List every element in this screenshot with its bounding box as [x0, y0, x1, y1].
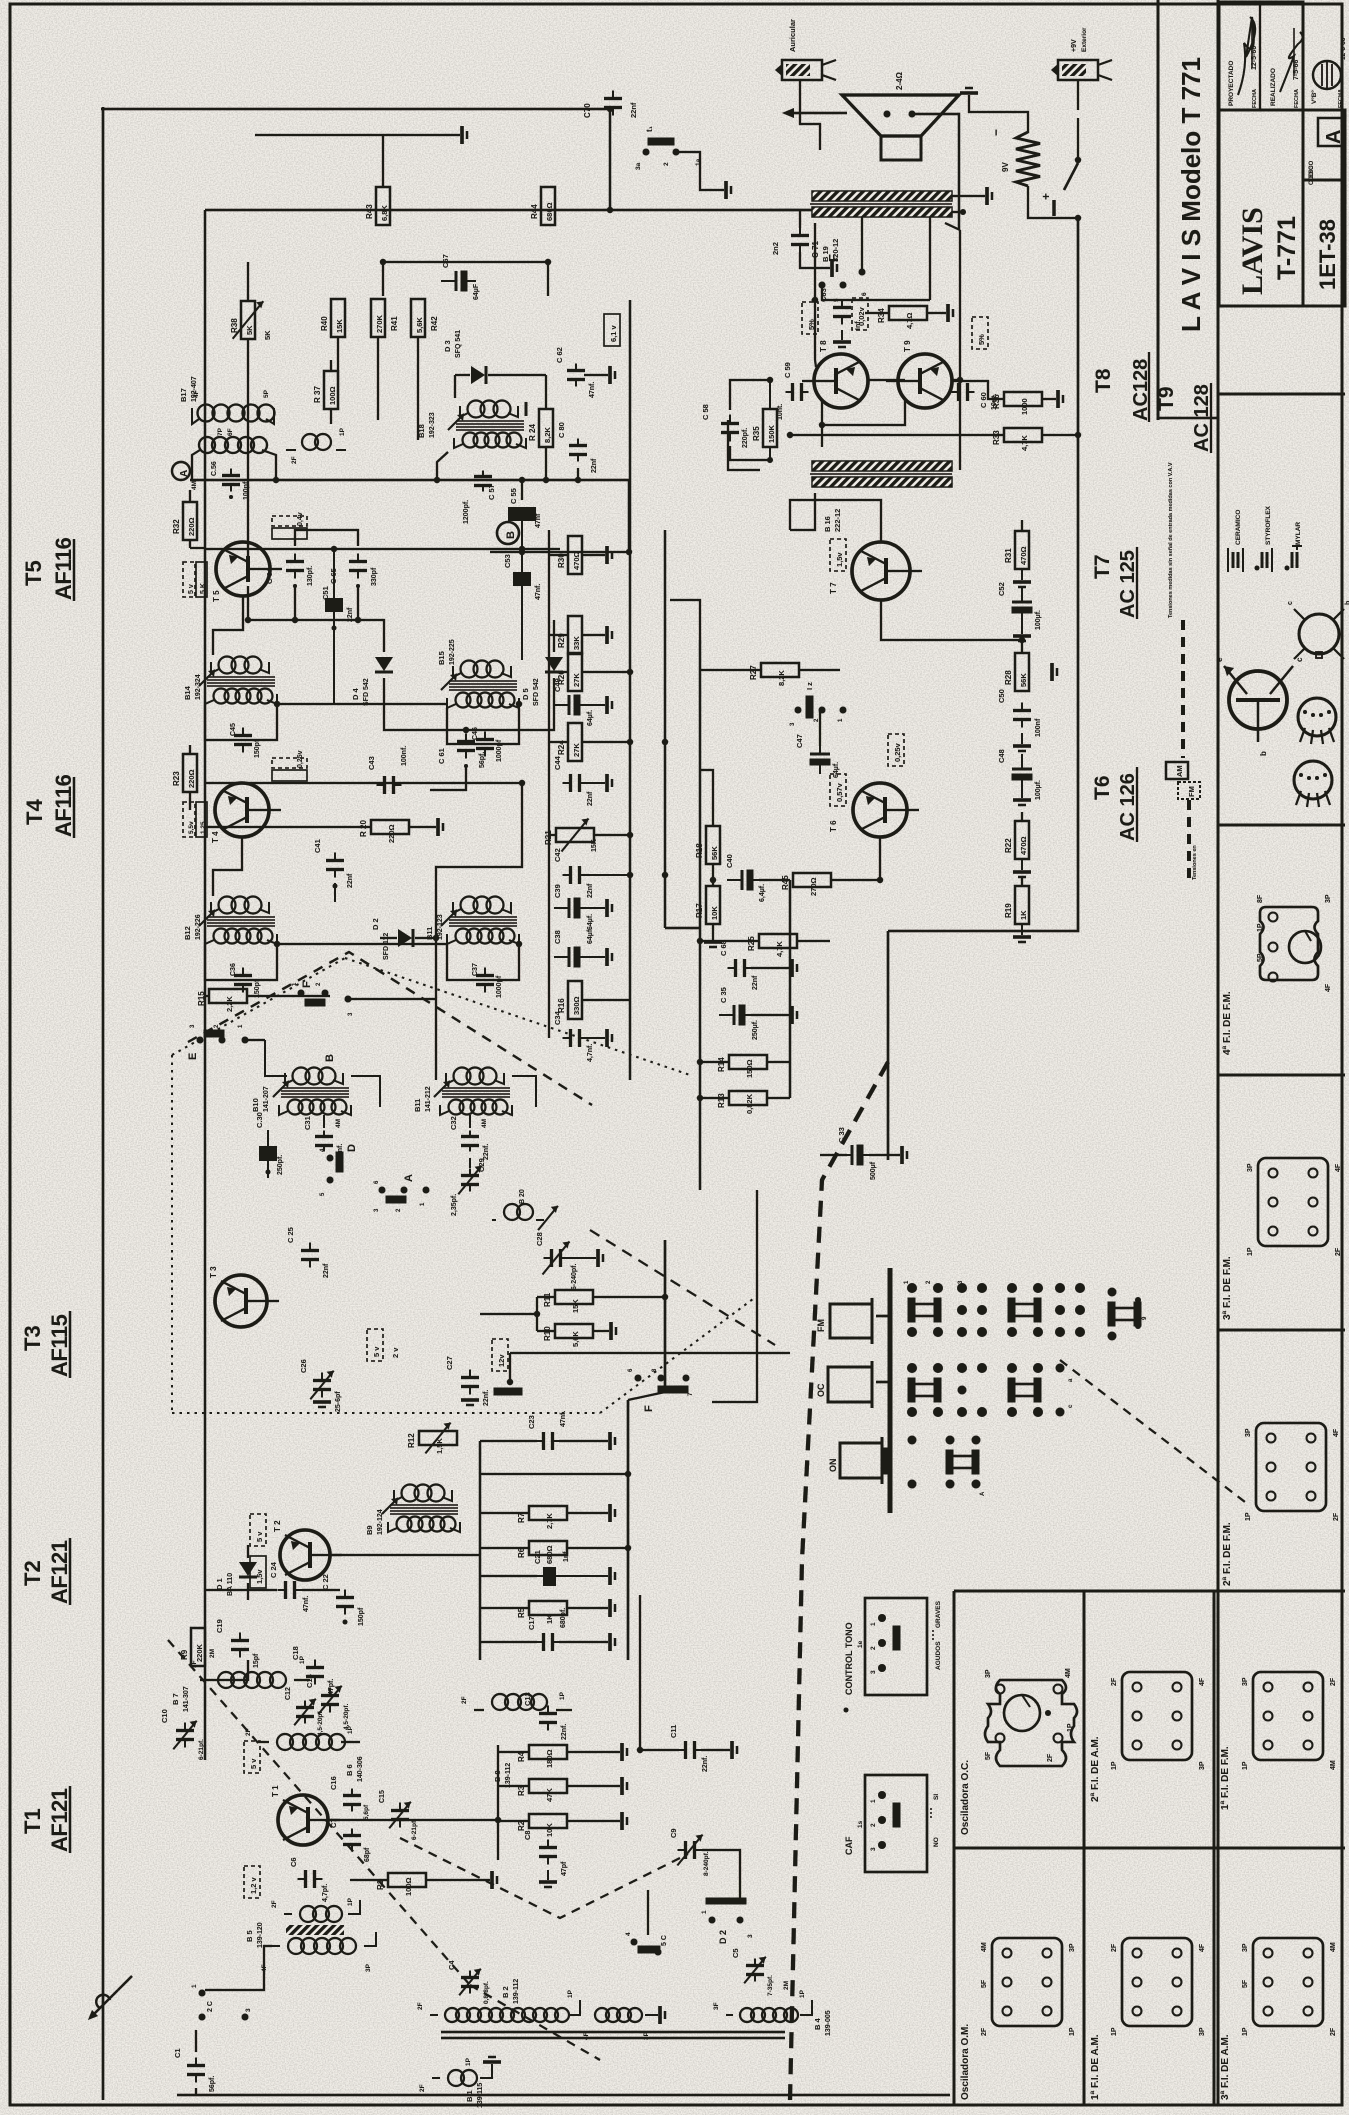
- svg-text:141-207: 141-207: [263, 1086, 270, 1112]
- svg-text:130pf.: 130pf.: [307, 566, 314, 586]
- transistor T8 AC128: [802, 340, 868, 408]
- resistor R33 4.7K: [787, 428, 1081, 451]
- panel 2a FI de FM: [1222, 1522, 1233, 1586]
- svg-text:B15: B15: [437, 651, 446, 665]
- svg-text:150pf: 150pf: [254, 739, 261, 758]
- svg-text:1: 1: [191, 1984, 198, 1988]
- resistor R24 27K: [549, 723, 630, 761]
- voltage note T1 12v: [244, 1866, 260, 1898]
- svg-text:T 5: T 5: [212, 590, 221, 602]
- switch t1 on-off: [635, 125, 731, 199]
- capacitor C60 10nf: [952, 383, 999, 410]
- wire preamp rail 628: [627, 1400, 630, 1660]
- svg-text:1K: 1K: [545, 1614, 554, 1624]
- svg-text:FECHA: FECHA: [1338, 89, 1344, 108]
- svg-text:100Ω: 100Ω: [328, 386, 337, 405]
- svg-text:4M: 4M: [335, 1119, 342, 1128]
- svg-text:REALIZADO: REALIZADO: [1270, 68, 1277, 106]
- svg-text:C11: C11: [669, 1725, 678, 1738]
- svg-text:4M: 4M: [981, 1942, 988, 1952]
- wire T2 stage: [330, 1554, 480, 1556]
- svg-text:C16: C16: [329, 1776, 338, 1790]
- svg-text:1e: 1e: [857, 1640, 864, 1648]
- panel grid lines: [954, 1591, 1345, 2104]
- svg-text:C53: C53: [503, 554, 512, 568]
- resistor R36 1000: [952, 381, 1063, 415]
- svg-text:2-4Ω: 2-4Ω: [895, 71, 904, 90]
- svg-text:8-240pf.: 8-240pf.: [703, 1851, 710, 1876]
- svg-text:R19: R19: [1004, 903, 1013, 918]
- svg-text:PROYECTADO: PROYECTADO: [1228, 61, 1235, 106]
- transistor T6: [829, 783, 919, 837]
- svg-text:5%: 5%: [807, 319, 816, 330]
- svg-text:R10: R10: [543, 1326, 552, 1341]
- svg-text:D 5: D 5: [521, 688, 530, 700]
- svg-text:−: −: [989, 129, 1003, 136]
- svg-text:B9: B9: [365, 1525, 374, 1535]
- panel 3a FI de FM: [1218, 1256, 1345, 1330]
- diode D3 SFQ541: [443, 330, 546, 398]
- dash line tuning gang 2: [400, 1838, 688, 1918]
- svg-text:A: A: [980, 1491, 986, 1496]
- svg-text:22nf: 22nf: [752, 975, 759, 990]
- svg-text:64µf.: 64µf.: [587, 928, 594, 944]
- svg-text:B 7: B 7: [171, 1693, 180, 1705]
- wire F node to IF: [712, 1290, 757, 1402]
- svg-text:100µf.: 100µf.: [1035, 780, 1042, 800]
- svg-text:3ª F.I. DE A.M.: 3ª F.I. DE A.M.: [1220, 2034, 1231, 2100]
- svg-text:C42: C42: [553, 848, 562, 862]
- svg-text:192-226: 192-226: [195, 914, 202, 940]
- svg-text:R25: R25: [747, 936, 756, 951]
- svg-text:56K: 56K: [1019, 673, 1028, 687]
- svg-text:330pf: 330pf: [371, 567, 378, 586]
- svg-text:220pf.: 220pf.: [742, 428, 749, 448]
- svg-text:T 9: T 9: [903, 340, 912, 352]
- svg-text:FM: FM: [1187, 786, 1196, 797]
- wire IF link y942: [277, 943, 447, 945]
- svg-text:R 20: R 20: [359, 820, 368, 837]
- svg-text:5K: 5K: [263, 330, 272, 340]
- switch contacts C input: [191, 1984, 252, 2021]
- svg-text:C14: C14: [305, 1673, 314, 1688]
- svg-text:T6: T6: [1091, 775, 1114, 800]
- diode D1 BA110: [215, 1545, 257, 1600]
- svg-text:3P: 3P: [1325, 894, 1332, 903]
- svg-text:C13: C13: [523, 1692, 532, 1706]
- svg-text:0,25v: 0,25v: [297, 750, 304, 768]
- wire left rail: [204, 210, 206, 1760]
- svg-text:6-21pf.: 6-21pf.: [198, 1739, 205, 1760]
- dash line AM FM boundary: [790, 1062, 888, 2100]
- wire T6 T7 stage: [852, 837, 880, 880]
- svg-text:6,8K: 6,8K: [380, 205, 389, 221]
- svg-text:C31: C31: [303, 1116, 312, 1130]
- svg-text:+: +: [1039, 193, 1053, 200]
- svg-text:C.30: C.30: [255, 1112, 264, 1128]
- transistor T3: [209, 1266, 279, 1327]
- svg-text:T 4: T 4: [211, 831, 220, 843]
- svg-text:470Ω: 470Ω: [1019, 546, 1028, 565]
- svg-text:Exterior: Exterior: [1081, 27, 1088, 52]
- switch button FM: [816, 1298, 888, 1344]
- svg-text:2F: 2F: [1330, 1677, 1337, 1686]
- potentiometer R38 5K: [230, 262, 272, 360]
- resistor R5 1K: [480, 1599, 615, 1624]
- svg-text:Auricular: Auricular: [788, 19, 797, 52]
- svg-text:15K: 15K: [591, 839, 598, 852]
- svg-text:220Ω: 220Ω: [187, 769, 196, 788]
- svg-text:C19: C19: [215, 1619, 224, 1633]
- switch contacts C gang: [625, 1890, 668, 1956]
- transistor T4: [211, 783, 281, 843]
- svg-text:2,2K: 2,2K: [225, 996, 234, 1012]
- capacitor C40 64uF: [725, 854, 790, 902]
- svg-text:139-112: 139-112: [513, 1979, 520, 2004]
- svg-text:220Ω: 220Ω: [387, 824, 396, 843]
- transformer B15 192-225: [437, 639, 519, 762]
- svg-text:C50: C50: [997, 689, 1006, 703]
- svg-text:AF115: AF115: [47, 1314, 72, 1377]
- resistor R28 56K: [1004, 640, 1057, 691]
- svg-text:3P: 3P: [1242, 1943, 1249, 1952]
- svg-text:270K: 270K: [375, 314, 384, 333]
- capacitor C34 47nf: [553, 1010, 612, 1062]
- transformer B9 192-124: [365, 1485, 460, 1536]
- svg-text:3P: 3P: [643, 2031, 650, 2040]
- svg-text:1nf.: 1nf.: [563, 1550, 570, 1563]
- diode D5 SFD542: [521, 640, 563, 706]
- svg-text:139-115: 139-115: [477, 2083, 484, 2108]
- svg-text:6,1 v: 6,1 v: [609, 324, 618, 342]
- svg-text:FECHA: FECHA: [1294, 89, 1300, 108]
- switch contacts FM row: [904, 1280, 987, 1337]
- svg-text:C 58: C 58: [701, 404, 710, 420]
- svg-text:10K: 10K: [710, 906, 719, 920]
- resistor R15 2.2K: [197, 989, 330, 1012]
- capacitor C18 47pf: [291, 1646, 335, 1695]
- svg-text:3P: 3P: [1242, 1677, 1249, 1686]
- switch contacts FM row group2: [1007, 1283, 1085, 1337]
- voltage note T2: [250, 1514, 266, 1588]
- transistor T9 AC128: [886, 340, 952, 408]
- svg-text:1P: 1P: [347, 1897, 354, 1906]
- node A circled: [172, 462, 198, 490]
- svg-text:222-12: 222-12: [833, 509, 842, 532]
- stage label T6 AC126: [1091, 767, 1139, 842]
- svg-text:b: b: [1259, 751, 1268, 756]
- resistor R7 2.7K: [480, 1504, 615, 1529]
- svg-text:680pf.: 680pf.: [560, 1608, 567, 1628]
- switch contacts D: [320, 1144, 358, 1196]
- svg-text:R33: R33: [992, 430, 1001, 445]
- resistor R10 5.6K: [537, 1322, 616, 1347]
- svg-text:5,6K: 5,6K: [571, 1331, 580, 1347]
- capacitor C65 330pf: [329, 554, 378, 589]
- svg-text:2F: 2F: [291, 456, 298, 464]
- svg-text:150Ω: 150Ω: [745, 1059, 754, 1078]
- svg-text:B 19: B 19: [821, 246, 830, 262]
- svg-text:2: 2: [870, 1823, 877, 1827]
- svg-text:1P: 1P: [1111, 1761, 1118, 1770]
- svg-text:3F: 3F: [713, 2002, 720, 2010]
- svg-text:64µf.: 64µf.: [587, 914, 594, 930]
- svg-text:D 3: D 3: [443, 340, 452, 352]
- svg-text:R35: R35: [752, 426, 761, 441]
- coil B3: [583, 2006, 665, 2040]
- svg-text:0,82K: 0,82K: [745, 1093, 754, 1114]
- connector 1a FI FM: [1242, 1672, 1337, 1770]
- svg-text:R31: R31: [1004, 548, 1013, 563]
- transformer B17 192-407: [179, 376, 276, 480]
- capacitor C55 47nf: [508, 488, 542, 552]
- capacitor C33 500uF: [820, 1127, 907, 1180]
- svg-text:4M: 4M: [1330, 1760, 1337, 1770]
- svg-text:B 6: B 6: [345, 1764, 354, 1776]
- diode D4 SFD542: [351, 640, 393, 706]
- wire decoupling rails: [699, 640, 701, 1190]
- wire driver to bases: [728, 420, 760, 470]
- svg-text:5 K: 5 K: [200, 583, 207, 594]
- svg-text:64µF: 64µF: [473, 283, 480, 300]
- switch t2 power: [1028, 118, 1081, 221]
- resistor R45 270: [781, 873, 852, 896]
- svg-text:AC 125: AC 125: [1117, 550, 1139, 618]
- svg-text:33K: 33K: [572, 636, 581, 650]
- right column rule: [1217, 0, 1220, 2104]
- svg-text:1P: 1P: [1111, 2027, 1118, 2036]
- svg-text:T 1: T 1: [271, 1785, 280, 1797]
- resistor R20 220: [205, 818, 443, 843]
- svg-text:C46: C46: [472, 727, 479, 740]
- svg-text:Osciladora O.M.: Osciladora O.M.: [960, 2024, 971, 2100]
- svg-text:C52: C52: [997, 582, 1006, 596]
- svg-text:5 v: 5 v: [255, 1531, 264, 1542]
- svg-text:AGUDOS: AGUDOS: [935, 1641, 942, 1670]
- svg-text:R43: R43: [365, 204, 374, 219]
- connector osciladora OC: [985, 1668, 1077, 1766]
- svg-text:T 8: T 8: [819, 340, 828, 352]
- resistor R31 470: [1004, 520, 1031, 587]
- svg-text:T 3: T 3: [209, 1266, 218, 1278]
- svg-text:+9V: +9V: [1071, 39, 1078, 52]
- wire output stage: [814, 223, 816, 360]
- svg-text:5K: 5K: [245, 325, 254, 335]
- svg-text:4,7nf.: 4,7nf.: [587, 1044, 594, 1062]
- capacitor C35 250uF: [719, 987, 797, 1040]
- svg-text:B14: B14: [183, 685, 192, 700]
- svg-text:4ª F.I. DE F.M.: 4ª F.I. DE F.M.: [1222, 991, 1233, 1055]
- svg-text:R36: R36: [992, 394, 1001, 409]
- svg-text:3P: 3P: [1199, 2027, 1206, 2036]
- capacitor C51 22nf: [321, 548, 354, 670]
- svg-text:47pf: 47pf: [561, 1861, 568, 1876]
- svg-text:2F: 2F: [1047, 1753, 1054, 1762]
- svg-text:R 24: R 24: [528, 424, 537, 441]
- svg-text:22nf: 22nf: [591, 458, 598, 473]
- resistor R26 27K: [549, 653, 630, 691]
- svg-text:T5: T5: [21, 560, 46, 586]
- junction: [877, 877, 883, 883]
- capacitor C47 64uF: [795, 734, 840, 778]
- svg-text:22nf: 22nf: [323, 1263, 330, 1278]
- svg-text:CERAMICO: CERAMICO: [1235, 510, 1242, 545]
- legend cell divider: [1218, 393, 1345, 396]
- svg-text:192-323: 192-323: [429, 412, 436, 438]
- switch bank bar: [888, 1268, 893, 1513]
- svg-text:C 35: C 35: [719, 987, 728, 1003]
- svg-text:3P: 3P: [1199, 1761, 1206, 1770]
- capacitor C58 220pf: [701, 380, 770, 460]
- capacitor C26 trimmer: [299, 1359, 342, 1412]
- svg-text:3P: 3P: [1247, 1163, 1254, 1172]
- capacitor C31 10nf: [303, 1115, 344, 1160]
- capacitor C21 1nf: [480, 1550, 615, 1587]
- svg-text:D 1: D 1: [215, 1578, 224, 1590]
- capacitor C41 22nf: [313, 839, 354, 902]
- capacitor C43 100nf: [367, 746, 408, 794]
- schematic margin rule: [102, 107, 105, 2100]
- resistor R23 220: [172, 745, 197, 810]
- tuning gang bar: [441, 2031, 785, 2034]
- resistor R6 680: [480, 1541, 628, 1564]
- coil B20: [492, 1189, 558, 1230]
- svg-text:0,02v: 0,02v: [857, 306, 866, 326]
- svg-text:C12: C12: [285, 1687, 292, 1700]
- svg-text:T1: T1: [20, 1808, 45, 1834]
- resistor R9 220K: [180, 1628, 205, 1666]
- svg-text:SFQ 541: SFQ 541: [455, 330, 462, 358]
- svg-text:4F: 4F: [1333, 1428, 1340, 1437]
- svg-text:5F: 5F: [985, 1751, 992, 1760]
- transformer B12 192-226: [183, 897, 277, 999]
- capacitor C12 trimmer: [285, 1687, 324, 1736]
- capacitor C6 4.7pf: [289, 1857, 329, 1902]
- transistor T1: [271, 1785, 340, 1845]
- svg-text:1P: 1P: [1242, 2027, 1249, 2036]
- svg-text:4M: 4M: [1330, 1942, 1337, 1952]
- svg-text:T 6: T 6: [829, 820, 838, 832]
- svg-text:C.56: C.56: [211, 461, 218, 476]
- svg-text:22nf.: 22nf.: [483, 1390, 490, 1406]
- capacitor C22 150pf: [321, 1574, 365, 1626]
- wire T4 stage: [205, 782, 522, 784]
- switch contacts OC row group2: [1007, 1363, 1074, 1417]
- svg-text:C9: C9: [669, 1828, 678, 1838]
- voltage note 6.1v: [604, 314, 620, 346]
- svg-text:AF116: AF116: [51, 537, 76, 600]
- svg-text:C36: C36: [230, 963, 237, 976]
- svg-text:1P: 1P: [567, 1989, 574, 1998]
- resistor R30 470: [549, 536, 612, 574]
- svg-text:1P: 1P: [1067, 1723, 1074, 1732]
- svg-text:3: 3: [747, 1934, 754, 1938]
- resistor R40 15K: [320, 299, 345, 337]
- capacitor C25 22nf: [286, 1227, 330, 1278]
- resistor R34 4.7: [865, 304, 953, 329]
- svg-text:180Ω: 180Ω: [545, 1749, 554, 1768]
- svg-text:5%: 5%: [977, 334, 986, 345]
- wire IF bus upper: [629, 300, 631, 530]
- stage label T3 AF115: [20, 1311, 72, 1378]
- svg-text:47nf.: 47nf.: [589, 382, 596, 398]
- svg-text:C39: C39: [553, 884, 562, 898]
- svg-text:3P: 3P: [365, 1963, 372, 1972]
- svg-text:22nf.: 22nf.: [561, 1724, 568, 1740]
- svg-text:c: c: [1287, 601, 1294, 605]
- svg-text:C51: C51: [321, 586, 330, 600]
- voltage note T7: [830, 539, 846, 571]
- svg-text:OC: OC: [816, 1383, 826, 1397]
- svg-text:1000pf: 1000pf: [496, 975, 503, 998]
- svg-text:C27: C27: [445, 1356, 454, 1370]
- svg-text:1P: 1P: [1245, 1512, 1252, 1521]
- wire bias rails: [497, 1745, 499, 1860]
- svg-text:4,7K: 4,7K: [1020, 435, 1029, 451]
- stage label T5 AF116: [21, 537, 76, 601]
- svg-text:270Ω: 270Ω: [809, 877, 818, 896]
- junction: [957, 377, 963, 383]
- svg-text:C26: C26: [299, 1359, 308, 1373]
- svg-text:56K: 56K: [710, 846, 719, 860]
- capacitor C70 22nf: [583, 91, 638, 119]
- capacitor C24 47nf: [205, 1561, 340, 1612]
- transformer B5 139-120: [245, 1897, 376, 1972]
- svg-text:T3: T3: [20, 1325, 45, 1351]
- svg-text:47nf: 47nf: [535, 513, 542, 528]
- svg-text:C32: C32: [449, 1116, 458, 1130]
- switch button OC: [816, 1361, 888, 1408]
- svg-text:139-112: 139-112: [505, 1763, 512, 1788]
- svg-text:100nf.: 100nf.: [401, 746, 408, 766]
- wire mid rail 640: [639, 1595, 641, 1750]
- capacitor C5 trimmer 7.35pf: [731, 1948, 774, 1996]
- svg-text:CONTROL TONO: CONTROL TONO: [844, 1622, 854, 1695]
- svg-text:R34: R34: [877, 308, 886, 323]
- title block panel divider: [1157, 0, 1160, 420]
- resistor R27 8.2K: [700, 663, 840, 686]
- transistor T7: [829, 542, 922, 600]
- svg-text:470Ω: 470Ω: [1019, 836, 1028, 855]
- signature box visto bueno: [1311, 37, 1347, 108]
- svg-text:3: 3: [870, 1670, 877, 1674]
- svg-text:1ET-38: 1ET-38: [1315, 219, 1340, 290]
- svg-text:2F: 2F: [271, 1900, 278, 1908]
- resistor R14 150: [700, 1055, 790, 1078]
- svg-text:3P: 3P: [1245, 1428, 1252, 1437]
- svg-text:12v: 12v: [497, 1354, 506, 1367]
- svg-text:C38: C38: [553, 930, 562, 944]
- svg-text:1ª F.I. DE F.M.: 1ª F.I. DE F.M.: [1220, 1746, 1231, 1810]
- capacitor C61 56pf: [437, 734, 486, 769]
- potentiometer R21 15K: [544, 819, 630, 853]
- wire T5 stage: [205, 548, 560, 550]
- svg-text:C70: C70: [583, 103, 592, 118]
- diode D2 SFD112: [371, 918, 439, 960]
- svg-text:2F: 2F: [981, 2027, 988, 2036]
- svg-text:R16: R16: [557, 998, 566, 1013]
- coil B8 139-112: [461, 1691, 572, 1788]
- svg-text:1P: 1P: [347, 1725, 354, 1734]
- svg-text:C15: C15: [379, 1790, 386, 1803]
- capacitor C7 68pf: [329, 1818, 371, 1862]
- svg-text:CAF: CAF: [844, 1836, 854, 1855]
- svg-text:C41: C41: [313, 839, 322, 853]
- svg-text:4F: 4F: [193, 390, 200, 398]
- svg-text:47nf.: 47nf.: [303, 1596, 310, 1612]
- svg-text:22nf: 22nf: [587, 883, 594, 898]
- svg-text:4,7K: 4,7K: [775, 941, 784, 957]
